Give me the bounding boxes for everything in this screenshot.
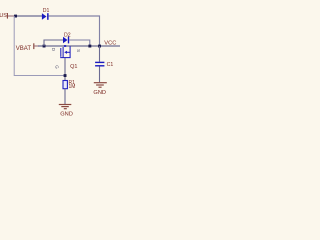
wire main rail (VBAT to drain, source to VCC) (38, 45, 120, 47)
wire VBAT port lead (34, 45, 39, 47)
svg-text:C1: C1 (107, 62, 114, 68)
svg-text:Q1: Q1 (70, 64, 77, 70)
svg-text:G: G (55, 65, 60, 69)
svg-text:GND: GND (60, 112, 73, 118)
gate plate bar (60, 48, 62, 57)
wire D2 cathode to source node (69, 40, 90, 45)
transistor Q1 (P-MOSFET) (60, 45, 70, 58)
wire top rail right (D1 cathode to corner) (49, 16, 100, 45)
junction VCC node (98, 45, 101, 48)
diode D2 (63, 37, 69, 44)
wire VCC node down to C1 (99, 46, 101, 62)
wire D2 anode riser (44, 40, 63, 46)
wire top rail left (VBUS to D1 anode) (14, 15, 42, 17)
ground under C1 (94, 82, 107, 88)
junction VBAT node (43, 45, 46, 48)
svg-text:GND: GND (93, 90, 106, 96)
wire gate route from VBUS (long L) (14, 16, 65, 76)
svg-text:VCC: VCC (104, 40, 116, 46)
svg-text:1M: 1M (69, 84, 76, 90)
node VBUS port bar (7, 13, 8, 19)
ground under R1 (59, 104, 72, 109)
svg-text:D1: D1 (43, 8, 50, 14)
wire gate down from Q1 (64, 58, 66, 81)
node VBAT port bar (33, 43, 34, 49)
drain stub (64, 45, 66, 47)
source bar (69, 46, 71, 57)
bottom bar (60, 57, 70, 59)
wire C1 to ground (99, 66, 101, 82)
junction gate node (64, 74, 67, 77)
svg-text:VBAT: VBAT (16, 46, 32, 52)
body line with arrow (66, 51, 70, 53)
capacitor C1 (95, 62, 104, 67)
wire VBUS port lead (8, 15, 15, 17)
channel bar (62, 47, 64, 58)
svg-text:S: S (76, 49, 81, 52)
svg-text:D2: D2 (64, 32, 71, 38)
junction VBUS node (14, 15, 17, 18)
background (0, 0, 120, 120)
svg-text:D: D (51, 48, 56, 51)
diode D1 (42, 13, 49, 20)
wire R1 to ground (64, 89, 66, 104)
junction D2 cathode / source (88, 45, 91, 48)
resistor R1 (63, 81, 67, 89)
